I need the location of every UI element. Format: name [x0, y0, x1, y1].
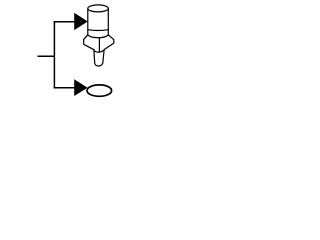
wire: top branch [54, 21, 75, 23]
ellipse indicator [87, 85, 112, 96]
grease fitting: hex nut seam [98, 38, 100, 52]
grease fitting: cylinder body [88, 5, 109, 12]
grease fitting: hex nut right [104, 35, 114, 50]
wire: bottom branch [54, 87, 75, 89]
wire: input stub [38, 55, 56, 57]
wire: vertical bus [53, 21, 55, 89]
arrow: bottom flow arrow [74, 79, 87, 96]
grease fitting: threaded tip [94, 50, 104, 52]
grease fitting: hex nut left [84, 35, 95, 50]
grease fitting [84, 5, 114, 66]
grease fitting: barrel rim arc [88, 29, 108, 32]
grease fitting: cylinder bottom arc [88, 35, 109, 38]
arrow: top flow arrow [74, 13, 88, 30]
